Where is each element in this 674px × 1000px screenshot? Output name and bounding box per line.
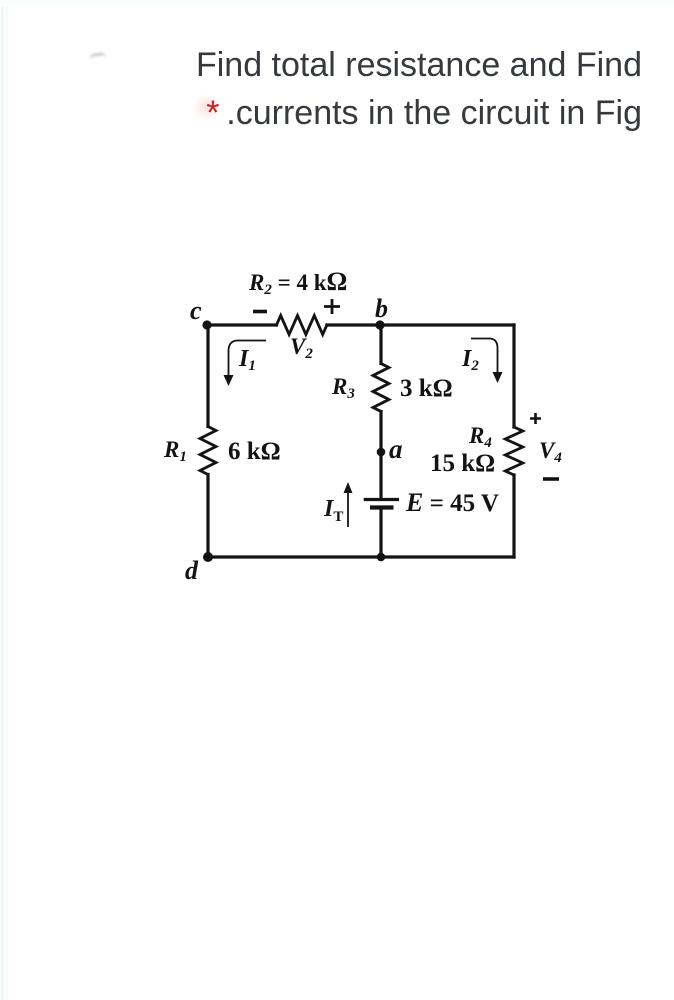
polarity minus below V4	[543, 477, 559, 481]
svg-text:V2: V2	[290, 334, 313, 362]
svg-text:IT: IT	[323, 496, 343, 525]
top screen edge shading	[0, 0, 674, 6]
svg-text:d: d	[185, 556, 199, 585]
wire: right branch upper, corner down to R4	[512, 325, 515, 427]
node b (junction dot)	[375, 320, 384, 329]
resistor R2 (horizontal zigzag)	[277, 316, 327, 335]
resistor R3 (vertical zigzag)	[373, 364, 389, 412]
current arrow I2 (hooked arrow curving down)	[471, 339, 498, 373]
current arrow IT (straight arrow pointing up)	[347, 492, 349, 527]
svg-text:R1: R1	[163, 437, 187, 465]
svg-text:b: b	[375, 294, 388, 323]
wire: middle branch node b down to R3	[379, 325, 382, 364]
current arrow I1 (hooked arrow curving down)	[229, 341, 267, 376]
svg-text:E = 45 V: E = 45 V	[405, 488, 499, 517]
wire: left branch upper, c down to R1	[206, 325, 209, 427]
svg-text:I1: I1	[238, 346, 256, 374]
bottom middle junction (dot)	[377, 553, 386, 562]
svg-text:3 kΩ: 3 kΩ	[400, 375, 453, 402]
battery E long plate (top, +)	[364, 498, 399, 501]
question title	[196, 41, 642, 137]
polarity plus above R2	[324, 299, 340, 314]
wire: bottom segment middle junction to bottom-right corner	[381, 555, 514, 558]
wire: battery - plate down to bottom junction	[379, 510, 382, 557]
pink halo behind asterisk	[192, 94, 222, 120]
wire: left branch lower, R1 down to node d	[206, 475, 209, 558]
wire: right branch lower, R4 down to bottom-right corner	[512, 475, 515, 557]
wire: top-left segment node c to R2	[207, 323, 277, 326]
wire: top segment R2 to node b	[327, 323, 381, 326]
battery E short plate (bottom, -)	[370, 505, 394, 509]
svg-text:V4: V4	[539, 438, 562, 466]
svg-text:R4: R4	[468, 423, 492, 451]
polarity minus above R2	[253, 310, 267, 314]
resistor R4 (vertical zigzag)	[505, 427, 523, 475]
wire: bottom segment d to bottom-middle junction	[208, 555, 381, 558]
node a (junction dot)	[377, 448, 386, 457]
svg-text:6 kΩ: 6 kΩ	[228, 438, 281, 465]
node c (junction dot)	[202, 320, 211, 329]
wire: node a down to battery + plate	[379, 452, 382, 498]
polarity plus above V4	[530, 413, 541, 424]
svg-text:c: c	[190, 296, 202, 325]
node d (junction dot)	[203, 552, 213, 562]
resistor R1 (vertical zigzag)	[200, 427, 216, 475]
svg-text:R3: R3	[331, 374, 355, 402]
svg-text:15 kΩ: 15 kΩ	[430, 450, 495, 477]
wire: middle branch R3 down to node a	[379, 412, 382, 453]
svg-text:R2 = 4 kΩ: R2 = 4 kΩ	[248, 267, 347, 298]
svg-text:a: a	[389, 434, 403, 464]
left screen edge shading	[0, 0, 9, 1000]
small gray pen smudge	[89, 52, 106, 64]
wire: top segment node b to top-right corner	[381, 323, 514, 326]
svg-text:I2: I2	[461, 346, 479, 374]
